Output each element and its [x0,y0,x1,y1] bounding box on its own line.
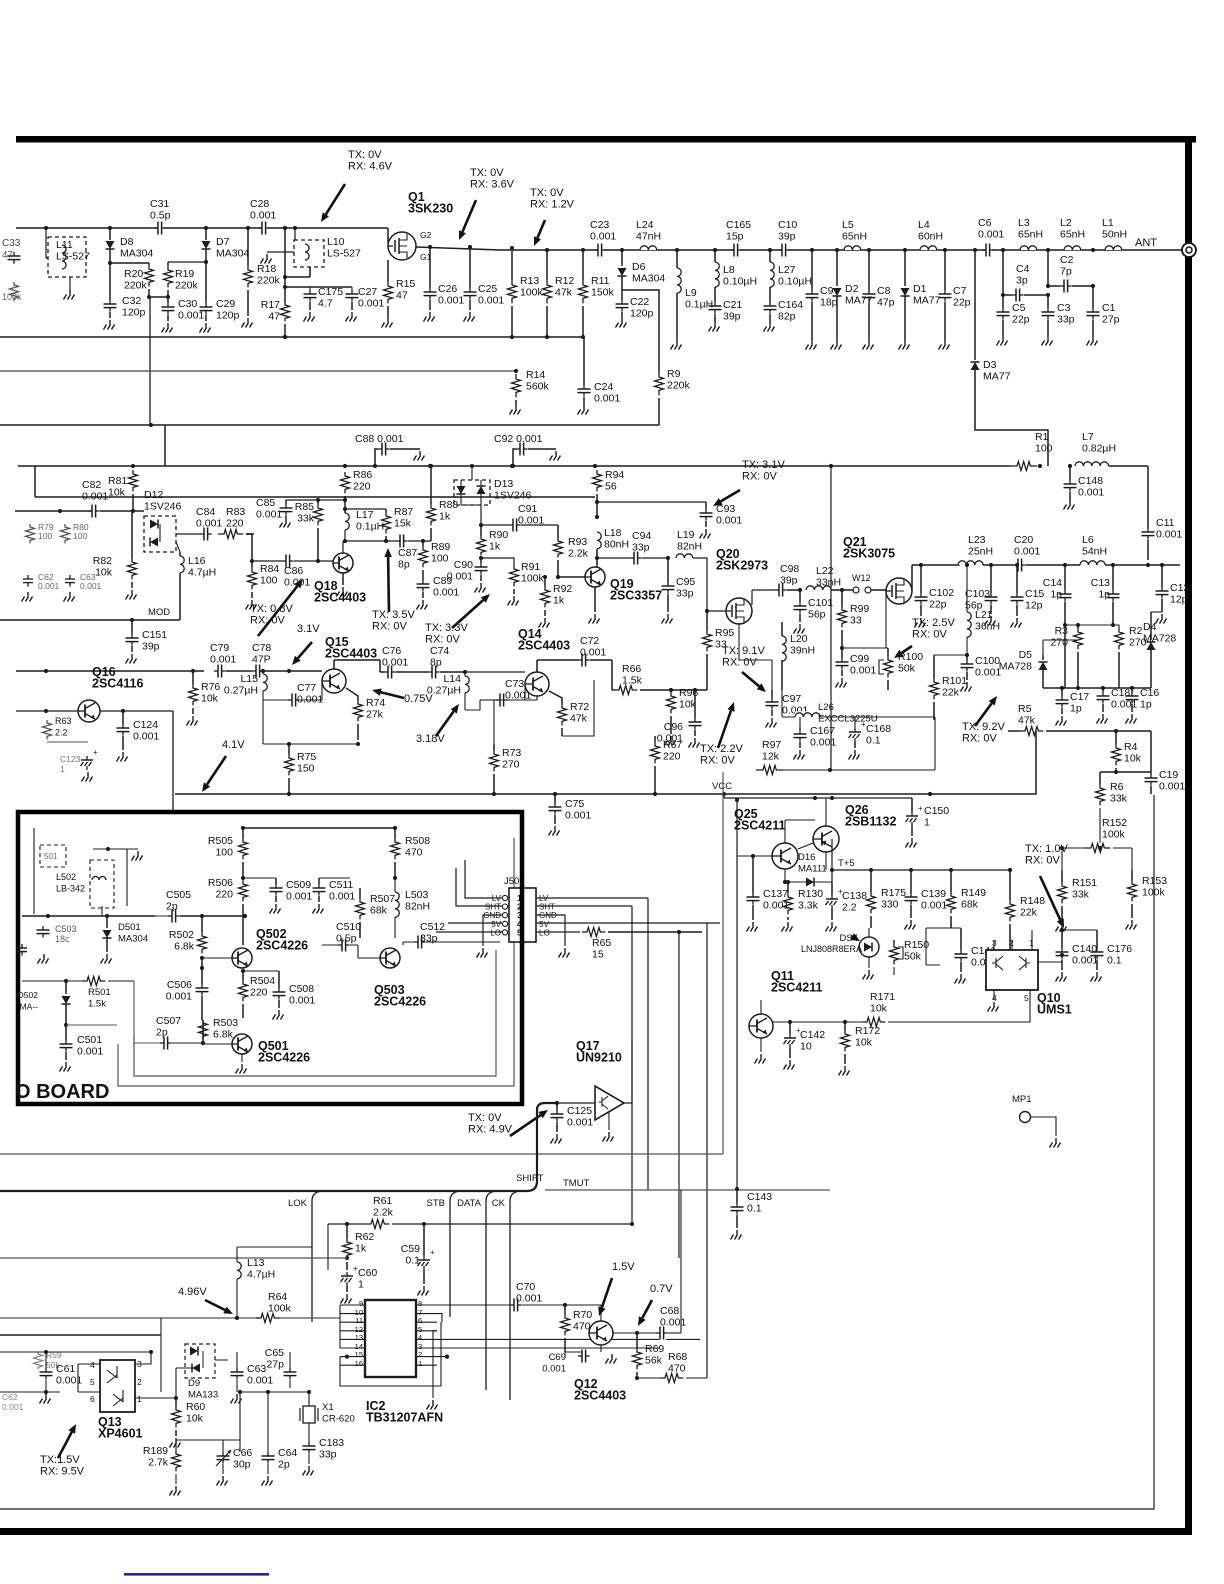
wire antenna input rail [16,227,388,229]
svg-text:0.001: 0.001 [133,731,159,743]
transistor Q15 2SC4403 [322,635,377,693]
capacitor C89 0.001 [417,575,460,610]
capacitor C69 0.001 [542,1349,601,1375]
svg-text:L15: L15 [240,673,258,685]
annotation TX:3.5V RX:0V [372,548,415,633]
svg-text:RX: 0V: RX: 0V [962,733,998,745]
wire Q10 right link [1038,930,1062,962]
svg-text:R171: R171 [870,991,895,1003]
wire J501 right nets [536,898,720,958]
svg-text:D502: D502 [18,990,39,1000]
resistor R90 1k [477,525,509,563]
transistor Q501 2SC4226 [203,1034,310,1074]
svg-text:R76: R76 [201,681,220,693]
wire y688 row [1043,687,1151,689]
capacitor C138 2.2 [826,882,868,932]
resistor R13 100k [508,246,544,337]
svg-text:D2: D2 [845,283,859,295]
wire bus vcc down [735,798,739,1189]
svg-text:R2: R2 [1129,625,1143,637]
svg-text:80nH: 80nH [604,539,629,551]
svg-text:1k: 1k [489,541,501,553]
svg-text:RX: 9.5V: RX: 9.5V [40,1466,85,1478]
capacitor C141 0.001 [926,928,997,984]
svg-text:2.2k: 2.2k [373,1207,394,1219]
transistor Q19 2SC3357 [558,567,662,624]
IC2 right pins [416,1299,437,1368]
svg-text:15p: 15p [726,231,744,243]
capacitor C96 0.001 [657,690,702,748]
capacitor C3 33p [1042,295,1075,346]
capacitor C168 0.1 [849,717,892,760]
svg-text:C164: C164 [778,299,803,311]
resistor R4 10k [1100,731,1151,774]
svg-text:2SC4403: 2SC4403 [325,647,377,661]
svg-text:100k: 100k [2,292,22,302]
svg-text:0.001: 0.001 [38,581,60,591]
inductor L11 LS-527 [44,226,90,300]
svg-text:L11: L11 [56,239,73,251]
inductor L4 60nH [918,219,943,250]
svg-text:C137: C137 [763,888,788,900]
wire R20-R19 link [149,297,168,425]
svg-text:R88: R88 [439,499,458,511]
svg-text:100k: 100k [1102,829,1126,841]
svg-text:0.27µH: 0.27µH [427,685,461,697]
svg-text:82nH: 82nH [405,901,430,913]
svg-text:0.001: 0.001 [77,1046,103,1058]
svg-text:4.1V: 4.1V [222,739,245,751]
svg-text:18p: 18p [820,297,838,309]
svg-text:C68: C68 [660,1305,679,1317]
svg-text:6: 6 [418,1316,422,1325]
capacitor C65 27p [265,1347,300,1388]
svg-text:C95: C95 [676,576,695,588]
wire bottom gray rails [0,1224,328,1335]
resistor R3 270 [1050,623,1115,690]
wire rail y337 [0,335,585,339]
svg-text:22k: 22k [942,687,960,699]
svg-text:TX: 0V: TX: 0V [470,167,504,179]
svg-text:R5: R5 [1018,703,1032,715]
svg-text:C79: C79 [210,642,229,654]
resistor R81 10k [108,470,138,511]
resistor R91 100k [508,561,545,606]
bus curve LOK [288,1191,322,1322]
resistor R1 100 [1010,431,1053,472]
svg-text:0.7V: 0.7V [650,1283,673,1295]
svg-text:0.001: 0.001 [978,229,1004,241]
svg-text:R83: R83 [226,506,245,518]
wire rail y425 [0,423,659,427]
svg-text:0.001: 0.001 [810,737,836,749]
svg-text:C75: C75 [565,798,584,810]
resistor R64 100k [256,1291,292,1324]
capacitor C72 0.001 [537,635,612,672]
svg-text:270: 270 [502,759,520,771]
svg-text:C103: C103 [965,588,990,600]
wire R61 stub [327,1224,329,1270]
svg-text:C123: C123 [60,754,81,764]
svg-text:C28: C28 [250,198,269,210]
svg-text:R65: R65 [592,937,611,949]
bus thick line y1191 [0,1103,557,1191]
audio board label [15,1081,109,1103]
svg-text:0.001: 0.001 [447,571,473,583]
svg-text:C72: C72 [580,635,599,647]
svg-text:0.001: 0.001 [80,581,102,591]
svg-text:MA304: MA304 [216,248,249,260]
svg-text:C7: C7 [953,285,967,297]
annotation TX:9.2V RX:0V [962,696,1005,745]
resistor R501 1.5k [22,976,134,1010]
resistor R63 (cut) [43,716,89,742]
svg-text:2.2: 2.2 [55,728,68,738]
svg-text:0.001: 0.001 [196,518,222,530]
svg-text:0.001: 0.001 [1014,546,1040,558]
capacitor C137 0.001 [747,856,790,932]
transistor Q503 2SC4226 [358,948,426,1009]
svg-text:C65: C65 [265,1347,284,1359]
svg-text:68k: 68k [370,905,388,917]
svg-text:100k: 100k [521,573,545,585]
resistor R20 220k [110,263,154,299]
svg-text:220: 220 [215,889,233,901]
diode D4 MA728 [1143,612,1176,688]
svg-text:C508: C508 [289,983,314,995]
audio board inner line [118,838,514,1086]
svg-text:C84: C84 [196,506,215,518]
svg-text:0.001: 0.001 [660,1317,686,1329]
svg-text:0.001: 0.001 [256,509,282,521]
svg-text:+: + [918,804,923,813]
svg-text:C168: C168 [866,723,891,735]
svg-text:56k: 56k [645,1355,663,1367]
capacitor C77 0.001 [263,682,323,708]
svg-text:L10: L10 [327,236,345,248]
svg-text:C124: C124 [133,719,158,731]
ic IC2 TB31207AFN [365,1300,443,1425]
capacitor C10 39p [778,219,797,258]
svg-text:47P: 47P [252,654,271,666]
transistor Q18 2SC4403 [314,553,366,605]
capacitor C501 0.001 [60,1025,118,1072]
svg-text:C142: C142 [800,1029,825,1041]
board edge through J501 [520,886,525,944]
svg-text:100: 100 [431,553,449,565]
wire y1318 [0,1316,340,1320]
svg-text:C15: C15 [1025,588,1044,600]
capacitor C32 120p [104,263,146,330]
svg-text:L6: L6 [1082,534,1094,546]
capacitor C124 0.001 [117,709,160,762]
inductor L1 50nH [1102,217,1127,250]
svg-text:0.001: 0.001 [594,393,620,405]
capacitor C99 0.001 [836,646,877,688]
capacitor C507 2p [134,981,205,1051]
inductor L16 4.7uH [176,542,216,620]
resistor R19 220k [164,262,207,303]
svg-text:6: 6 [90,1394,95,1404]
svg-text:C69: C69 [549,1352,566,1363]
svg-text:4.7µH: 4.7µH [247,1269,275,1281]
capacitor C87 8p [396,534,431,571]
resistor R150 50k [890,939,930,975]
transistor Q12 2SC4403 [565,1305,626,1403]
svg-text:R130: R130 [798,888,823,900]
svg-text:0.1µH: 0.1µH [685,299,713,311]
inductor L7 0.82uH [1075,431,1148,466]
capacitor C75 0.001 [549,792,592,836]
wire MOD line [0,607,180,622]
svg-text:L21: L21 [975,609,993,621]
svg-text:D13: D13 [494,478,513,490]
svg-text:R62: R62 [355,1231,374,1243]
svg-text:MA304: MA304 [120,248,153,260]
capacitor C19 0.001 [1145,731,1186,794]
capacitor C28 0.001 [246,198,277,236]
bus curve DATA [457,1191,496,1390]
svg-text:39p: 39p [142,641,160,653]
svg-text:33nH: 33nH [816,577,841,589]
svg-text:R99: R99 [850,603,869,615]
inductor L502 LB-342 [56,847,143,916]
capacitor C23 0.001 [590,219,616,258]
resistor R68 470 [637,1351,707,1384]
svg-text:C503: C503 [55,924,77,934]
capacitor C9 18p [806,248,838,350]
J501 left labels [483,894,501,937]
svg-text:0.001: 0.001 [433,587,459,599]
svg-text:4: 4 [418,1333,422,1342]
resistor R65 15 [582,927,702,961]
svg-text:33p: 33p [632,542,650,554]
svg-text:0.001: 0.001 [1078,487,1104,499]
resistor R74 27k [346,688,385,746]
svg-text:R18: R18 [257,263,276,275]
svg-text:0.1: 0.1 [1107,955,1122,967]
svg-text:VCC: VCC [712,781,732,792]
resistor R172 10k [839,1022,881,1076]
svg-text:2SC4403: 2SC4403 [518,639,570,653]
svg-text:C165: C165 [726,219,751,231]
svg-text:56: 56 [605,481,617,493]
svg-text:R17: R17 [261,299,280,311]
svg-text:10k: 10k [870,1003,888,1015]
svg-text:RX: 0V: RX: 0V [372,621,408,633]
inductor L24 47nH [636,219,661,250]
capacitor C94 33p [597,530,668,566]
svg-text:LO: LO [539,928,550,937]
svg-text:R74: R74 [366,697,385,709]
svg-text:1.5k: 1.5k [622,675,643,687]
annotation TX:0V RX:4.9V [468,1110,548,1136]
svg-text:0.001: 0.001 [382,657,408,669]
svg-text:C63: C63 [247,1363,266,1375]
resistor R72 47k [549,680,594,736]
svg-text:CR-620: CR-620 [322,1414,355,1425]
capacitor C63 0.001 [231,1318,274,1404]
svg-text:C1: C1 [1102,302,1116,314]
svg-text:10k: 10k [108,487,126,499]
svg-text:0.001: 0.001 [2,1402,24,1412]
svg-text:CK: CK [492,1198,506,1209]
svg-text:39p: 39p [723,311,741,323]
svg-text:C510: C510 [336,921,361,933]
svg-text:12k: 12k [762,751,780,763]
capacitor C140 0.001 [1056,928,1099,982]
svg-text:3SK230: 3SK230 [408,202,453,216]
svg-text:4: 4 [90,1360,95,1370]
capacitor C22 120p [616,296,654,328]
resistor R171 10k [773,990,1030,1028]
svg-text:0.001: 0.001 [56,1375,82,1387]
svg-text:R14: R14 [526,369,545,381]
annotation TX:1.5V RX:9.5V [40,1424,85,1478]
svg-text:11: 11 [355,1316,363,1325]
svg-text:MA133: MA133 [188,1390,218,1401]
resistor R6 33k [1096,772,1128,848]
annotation 4.1V [202,739,245,792]
capacitor C95 33p [662,558,696,624]
svg-text:MA--: MA-- [20,1002,39,1012]
test point W12 [848,573,886,593]
svg-text:L26: L26 [818,702,834,713]
capacitor C61 0.001 [40,1350,83,1404]
inductor L23 25nH [958,534,1014,565]
resistor R86 220 [341,469,373,513]
svg-text:RX: 0V: RX: 0V [700,755,736,767]
svg-text:C11: C11 [1156,517,1175,529]
svg-text:100k: 100k [268,1303,292,1315]
wire Q21 drain rail [912,565,960,591]
svg-text:C511: C511 [329,879,353,891]
connector J501 [502,876,536,942]
capacitor C11 0.001 [1142,466,1183,560]
resistor R508 470 [391,826,431,878]
svg-text:C150: C150 [924,805,949,817]
resistor R67 220 [651,736,683,794]
svg-text:R68: R68 [668,1351,687,1363]
svg-text:15: 15 [592,949,604,961]
capacitor C30 0.001 [162,298,205,333]
svg-text:L9: L9 [685,287,697,299]
svg-text:50k: 50k [898,663,916,675]
svg-text:0.001: 0.001 [166,991,192,1003]
svg-text:TX: 3.3V: TX: 3.3V [425,622,468,634]
svg-text:470: 470 [573,1321,591,1333]
capacitor C505 2p [155,889,247,924]
wire rail y794 [175,731,1036,796]
svg-text:+: + [93,748,98,757]
resistor R73 270 [490,696,538,794]
capacitor C165 15p [726,219,751,258]
svg-text:3p: 3p [1016,275,1028,287]
capacitor C79 0.001 [210,642,252,679]
svg-text:L8: L8 [723,264,735,276]
svg-text:6.8k: 6.8k [213,1029,234,1041]
svg-text:33k: 33k [297,513,315,525]
IC2 left pins [340,1299,365,1368]
svg-text:D5: D5 [1019,649,1033,661]
capacitor C125 0.001 [551,1103,594,1144]
wire board top rail [34,828,395,914]
svg-text:LO: LO [490,928,501,937]
svg-text:0.1: 0.1 [405,1255,420,1267]
wire bus vertical SHT [631,906,633,1224]
svg-text:C12: C12 [1170,582,1189,594]
wire R90-R91 link [481,558,514,565]
wire vcc label [712,781,912,800]
border top thick bar [16,136,1196,143]
inductor L19 82nH [666,529,707,611]
svg-text:C505: C505 [166,889,191,901]
resistor R153 100k [1126,870,1168,930]
resistor R87 15k [382,506,414,541]
svg-text:C143: C143 [747,1191,772,1203]
svg-text:3.1V: 3.1V [297,623,320,635]
svg-text:0.001: 0.001 [82,491,108,503]
led DS4 LNJ808R8ERA [801,928,879,980]
svg-text:R101: R101 [942,675,967,687]
svg-text:C101: C101 [808,597,833,609]
resistor R506 220 [208,876,248,945]
capacitor C7 22p [939,248,971,350]
svg-text:0.1: 0.1 [747,1203,762,1215]
capacitor C33 (cut) [2,238,21,264]
resistor R80 100 (cut) [61,522,89,543]
svg-text:C18: C18 [1111,687,1130,699]
svg-text:C151: C151 [142,629,167,641]
svg-text:100: 100 [260,575,278,587]
svg-text:LNJ808R8ERA: LNJ808R8ERA [801,944,862,954]
svg-text:R66: R66 [622,663,641,675]
svg-text:C61: C61 [56,1363,75,1375]
capacitor C506 0.001 [166,966,209,1020]
inductor L13 4.7uH [237,1247,312,1318]
resistor R101 22k [930,653,970,720]
capacitor C143 0.1 [731,1187,773,1240]
svg-text:L7: L7 [1082,431,1094,443]
annotation TX:0V RX:3.6V [459,167,515,240]
transistor Q25 2SC4211 [734,807,798,869]
svg-text:C21: C21 [723,299,742,311]
svg-text:L1: L1 [1102,217,1114,229]
svg-text:0.001: 0.001 [289,995,315,1007]
capacitor C183 33p [303,1437,345,1476]
wire IC2 left bus [312,1305,340,1348]
svg-text:R97: R97 [762,739,781,751]
svg-text:C10: C10 [778,219,797,231]
svg-text:0.001: 0.001 [478,295,504,307]
svg-text:100k: 100k [520,287,544,299]
wire T+5 rail [830,839,1012,882]
svg-text:1.5k: 1.5k [88,999,106,1010]
svg-text:0.001: 0.001 [516,1293,542,1305]
svg-text:C85: C85 [256,497,275,509]
svg-text:MOD: MOD [148,607,170,618]
transistor Q20 2SK2973 [705,547,768,624]
capacitor C12 12p [1156,563,1190,624]
svg-text:R9: R9 [667,368,681,380]
svg-text:C139: C139 [921,888,946,900]
svg-text:C183: C183 [319,1437,344,1449]
wire R6 junction [1098,846,1102,850]
svg-text:TMUT: TMUT [563,1178,590,1189]
capacitor C148 0.001 [1064,464,1105,510]
svg-text:R15: R15 [396,278,415,290]
svg-text:2: 2 [137,1377,142,1387]
